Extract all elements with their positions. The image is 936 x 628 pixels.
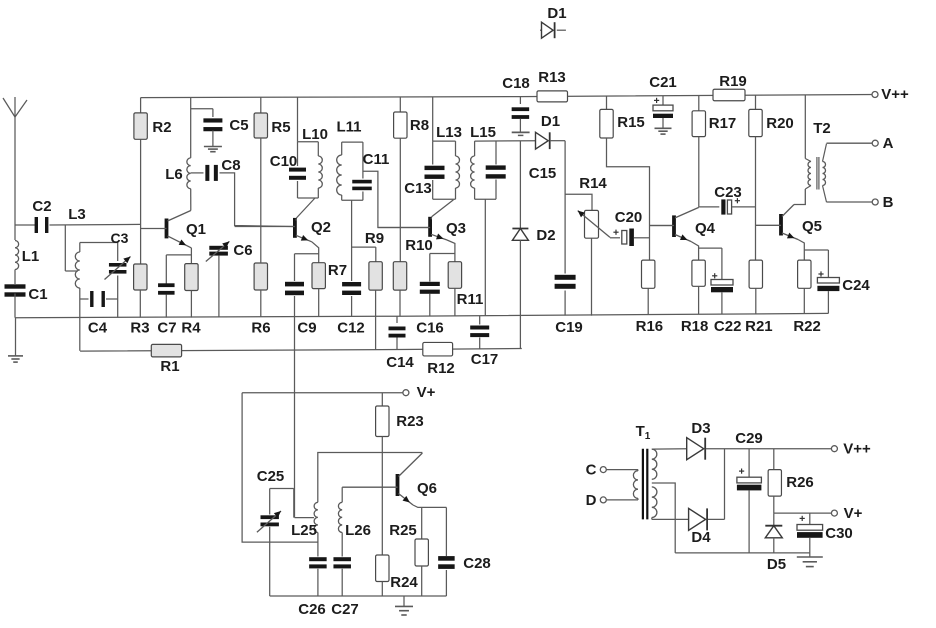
- svg-text:D1: D1: [541, 113, 560, 130]
- svg-text:C25: C25: [257, 468, 285, 485]
- svg-text:C14: C14: [386, 354, 414, 371]
- svg-text:V++: V++: [881, 86, 909, 103]
- svg-text:R7: R7: [328, 262, 347, 279]
- svg-text:C9: C9: [297, 320, 316, 337]
- svg-text:C26: C26: [298, 601, 326, 618]
- svg-text:R23: R23: [396, 413, 424, 430]
- svg-text:R11: R11: [457, 291, 484, 308]
- svg-text:R22: R22: [793, 318, 821, 335]
- svg-text:Q4: Q4: [695, 220, 716, 237]
- svg-text:A: A: [883, 135, 894, 152]
- svg-text:R14: R14: [579, 175, 607, 192]
- svg-text:T2: T2: [813, 120, 831, 137]
- svg-text:L3: L3: [68, 206, 86, 223]
- svg-text:D1: D1: [547, 5, 566, 22]
- svg-text:V++: V++: [843, 441, 871, 458]
- svg-text:R8: R8: [410, 117, 429, 134]
- svg-text:C29: C29: [735, 430, 763, 447]
- svg-text:D: D: [586, 492, 597, 509]
- svg-text:C11: C11: [363, 151, 390, 168]
- svg-text:C20: C20: [615, 209, 643, 226]
- svg-text:C10: C10: [270, 153, 298, 170]
- svg-text:C6: C6: [233, 242, 252, 259]
- svg-text:R17: R17: [709, 115, 737, 132]
- svg-text:L13: L13: [436, 124, 462, 141]
- svg-text:R12: R12: [427, 360, 455, 377]
- svg-text:C27: C27: [331, 601, 359, 618]
- svg-text:C1: C1: [28, 286, 47, 303]
- svg-text:C: C: [586, 462, 597, 479]
- svg-text:R6: R6: [251, 320, 270, 337]
- svg-text:Q2: Q2: [311, 219, 331, 236]
- svg-text:L6: L6: [165, 166, 183, 183]
- svg-text:L11: L11: [336, 119, 361, 136]
- svg-text:R2: R2: [152, 119, 171, 136]
- svg-text:C12: C12: [337, 320, 365, 337]
- svg-text:R5: R5: [271, 119, 290, 136]
- svg-text:R21: R21: [745, 318, 773, 335]
- svg-text:Q5: Q5: [802, 218, 822, 235]
- svg-text:C8: C8: [221, 157, 240, 174]
- svg-text:C16: C16: [416, 320, 444, 337]
- svg-text:C7: C7: [157, 320, 176, 337]
- svg-text:R26: R26: [786, 474, 814, 491]
- svg-text:C5: C5: [229, 117, 248, 134]
- svg-text:C13: C13: [404, 180, 432, 197]
- svg-text:L15: L15: [470, 124, 496, 141]
- svg-text:C22: C22: [714, 318, 742, 335]
- svg-text:C19: C19: [555, 319, 583, 336]
- svg-text:B: B: [883, 194, 894, 211]
- svg-text:L26: L26: [345, 522, 371, 539]
- svg-text:Q1: Q1: [186, 221, 206, 238]
- svg-text:C21: C21: [649, 74, 677, 91]
- svg-text:V+: V+: [844, 505, 863, 522]
- svg-text:R24: R24: [390, 574, 418, 591]
- svg-text:R9: R9: [365, 230, 384, 247]
- svg-text:C4: C4: [88, 320, 108, 337]
- svg-text:V+: V+: [417, 384, 436, 401]
- svg-text:C23: C23: [714, 184, 742, 201]
- svg-text:C28: C28: [463, 555, 491, 572]
- svg-text:D3: D3: [691, 420, 710, 437]
- svg-text:R1: R1: [160, 358, 179, 375]
- svg-text:L25: L25: [291, 522, 317, 539]
- svg-text:D5: D5: [767, 556, 786, 573]
- svg-text:L10: L10: [302, 126, 328, 143]
- svg-text:C18: C18: [502, 75, 530, 92]
- svg-text:R10: R10: [405, 237, 433, 254]
- svg-text:Q6: Q6: [417, 480, 437, 497]
- svg-text:R18: R18: [681, 318, 709, 335]
- svg-text:Q3: Q3: [446, 220, 466, 237]
- svg-text:C24: C24: [842, 277, 870, 294]
- svg-text:R16: R16: [636, 318, 664, 335]
- svg-text:R4: R4: [181, 320, 201, 337]
- svg-text:D4: D4: [691, 529, 711, 546]
- svg-text:C17: C17: [471, 351, 499, 368]
- svg-text:L1: L1: [22, 248, 40, 265]
- svg-text:R25: R25: [389, 522, 417, 539]
- svg-text:R19: R19: [719, 73, 747, 90]
- svg-text:C15: C15: [529, 165, 557, 182]
- svg-text:C30: C30: [825, 525, 853, 542]
- svg-text:C3: C3: [111, 230, 129, 246]
- svg-text:D2: D2: [536, 227, 555, 244]
- svg-text:C2: C2: [32, 198, 51, 215]
- svg-text:R13: R13: [538, 69, 566, 86]
- svg-text:R3: R3: [130, 320, 149, 337]
- svg-text:R15: R15: [617, 114, 645, 131]
- svg-text:R20: R20: [766, 115, 794, 132]
